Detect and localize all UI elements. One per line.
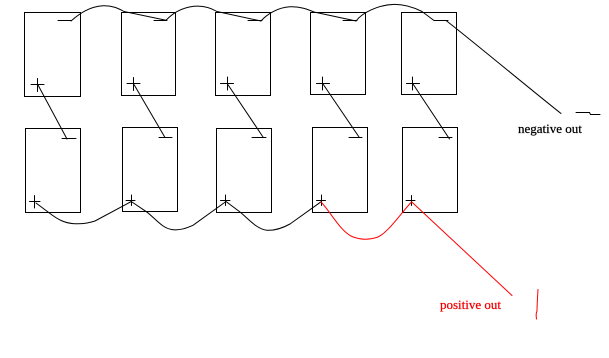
plus terminal bottom 2 [126, 195, 135, 206]
minus terminal bottom 4 [349, 137, 362, 139]
plus terminal bottom 4 [317, 195, 326, 206]
wire top cell4 plus to bottom cell4 minus [323, 84, 359, 137]
svg-text:negative out: negative out [518, 121, 582, 136]
minus terminal bottom 2 [159, 137, 172, 139]
minus terminal bottom 3 [252, 137, 266, 139]
battery cell bottom 2 [123, 128, 178, 212]
wire top cell5 plus to bottom cell5 minus [413, 84, 450, 139]
battery cell bottom 1 [26, 129, 81, 213]
plus terminal bottom 3 [221, 195, 231, 206]
wire bottom bus cell1 plus to cell2 plus [36, 202, 131, 224]
wire cell5 minus to negative out lead [446, 21, 561, 114]
battery cell top 1 [25, 13, 81, 97]
wire bottom bus cell2 plus to cell3 plus [131, 202, 226, 230]
battery cell bottom 3 [217, 129, 272, 213]
battery cell top 4 [311, 13, 366, 95]
wire top cell2 plus to bottom cell2 minus [134, 85, 165, 138]
positive out terminal stroke [536, 290, 538, 320]
negative out terminal dash [576, 113, 600, 115]
battery cell top 3 [216, 13, 271, 96]
plus terminal bottom 1 [30, 196, 41, 209]
battery cell bottom 5 [403, 128, 458, 213]
wire top bus cell3 minus to cell4 minus [261, 7, 356, 21]
minus terminal top 2 [154, 20, 167, 22]
wire top cell1 plus to bottom cell1 minus [38, 85, 67, 139]
minus terminal bottom 1 [62, 138, 76, 140]
plus terminal top 5 [407, 77, 420, 90]
minus terminal top 3 [248, 20, 262, 22]
battery cell top 2 [122, 13, 176, 96]
wire top cell3 plus to bottom cell3 minus [228, 84, 264, 137]
minus terminal top 1 [58, 20, 71, 22]
minus terminal bottom 5 [439, 137, 452, 139]
minus terminal top 5 [434, 20, 448, 22]
wire red bottom bus cell4 plus to cell5 plus [321, 202, 411, 239]
wire top bus cell1 minus to cell2 minus [71, 6, 166, 21]
plus terminal top 4 [317, 77, 330, 90]
wire top bus cell2 minus to cell3 minus [166, 6, 261, 21]
svg-text:positive out: positive out [440, 297, 501, 312]
plus terminal bottom 5 [406, 196, 415, 206]
battery cell bottom 4 [313, 128, 368, 213]
minus terminal top 4 [343, 20, 357, 22]
plus terminal top 3 [221, 77, 234, 90]
battery cell top 5 [402, 13, 457, 95]
wire bottom bus cell3 plus to cell4 plus [226, 202, 321, 231]
wire red cell5 plus to positive out lead [412, 202, 512, 296]
plus terminal top 2 [127, 78, 140, 91]
plus terminal top 1 [31, 79, 44, 92]
wire top bus cell4 minus to cell5 minus [356, 4, 434, 21]
